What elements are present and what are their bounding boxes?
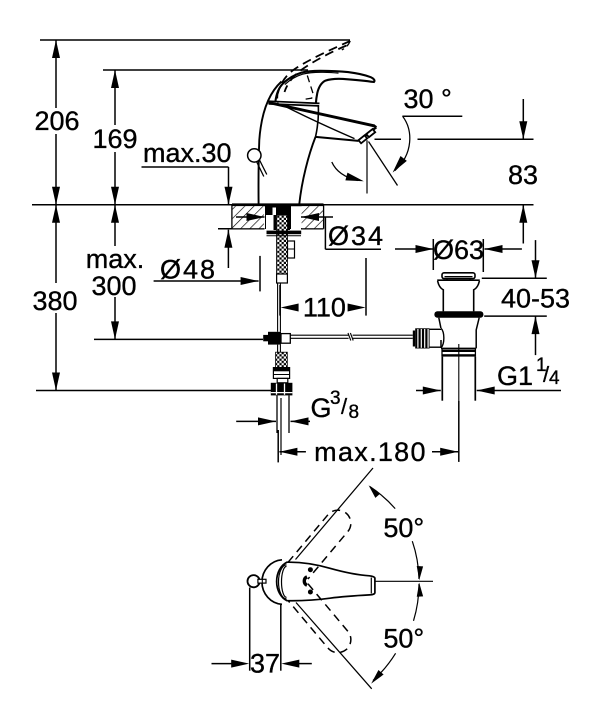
svg-text:8: 8 bbox=[349, 402, 360, 423]
svg-text:max.30: max.30 bbox=[143, 138, 232, 168]
svg-text:83: 83 bbox=[508, 160, 538, 190]
svg-text:40-53: 40-53 bbox=[501, 284, 570, 314]
svg-text:380: 380 bbox=[32, 286, 77, 316]
svg-text:300: 300 bbox=[91, 271, 136, 301]
svg-text:Ø48: Ø48 bbox=[160, 255, 217, 285]
svg-text:max.: max. bbox=[86, 244, 145, 274]
svg-text:110: 110 bbox=[303, 293, 346, 323]
svg-text:Ø63: Ø63 bbox=[433, 235, 484, 265]
svg-text:G1: G1 bbox=[497, 361, 533, 391]
svg-text:206: 206 bbox=[34, 106, 79, 136]
svg-text:max.180: max.180 bbox=[314, 437, 427, 467]
svg-text:30 °: 30 ° bbox=[404, 84, 452, 114]
svg-text:169: 169 bbox=[92, 124, 137, 154]
svg-text:50°: 50° bbox=[383, 513, 424, 543]
svg-text:/: / bbox=[341, 394, 348, 419]
svg-text:G: G bbox=[311, 393, 332, 423]
svg-text:50°: 50° bbox=[383, 624, 424, 654]
svg-text:4: 4 bbox=[549, 368, 560, 389]
svg-text:37: 37 bbox=[250, 649, 280, 679]
svg-text:3: 3 bbox=[330, 388, 341, 409]
svg-text:Ø34: Ø34 bbox=[328, 221, 385, 251]
